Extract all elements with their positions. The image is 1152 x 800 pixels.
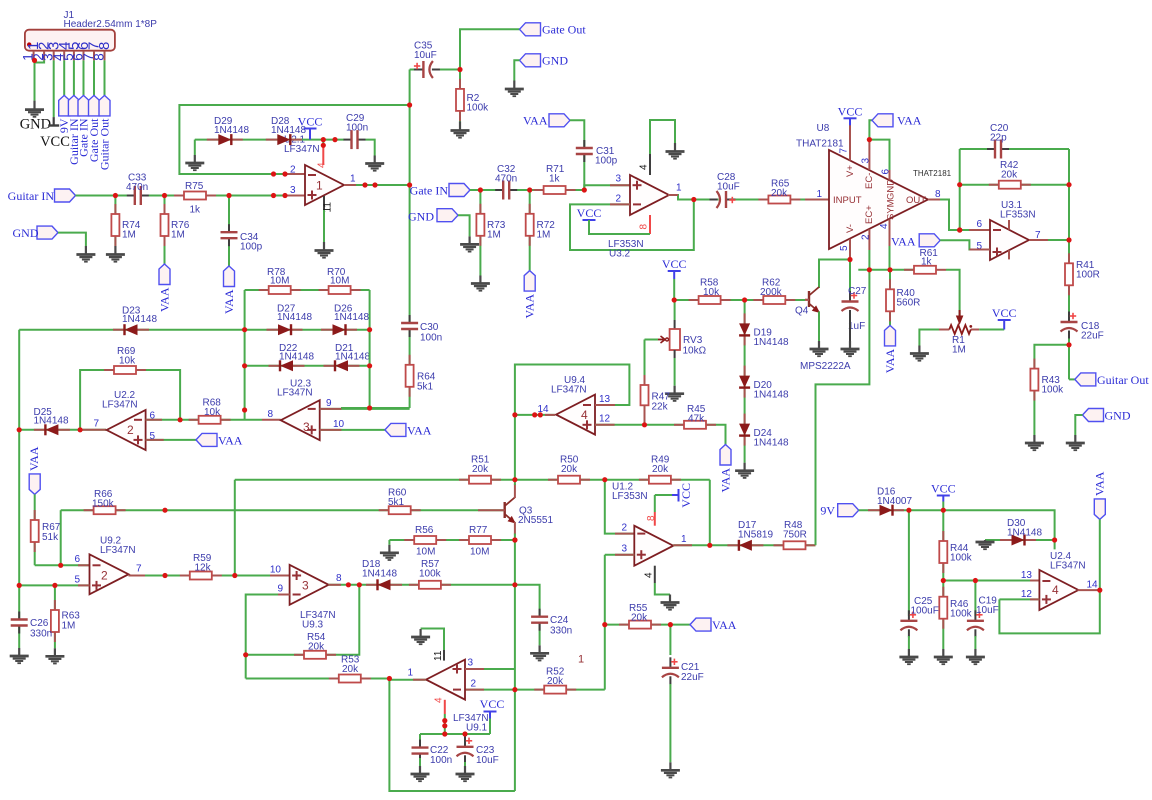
svg-text:1M: 1M (537, 230, 551, 241)
wire diode chain D19 D20 D24 (744, 300, 746, 463)
wire VAA to U2.4 output (1099, 519, 1101, 590)
svg-text:C30: C30 (420, 322, 439, 333)
wire U2.4 output (1078, 589, 1100, 591)
capacitor C22 100n (410, 748, 430, 754)
wire U8 pin3 to pin6 (869, 140, 889, 178)
svg-text:10: 10 (333, 419, 345, 430)
svg-text:VAA: VAA (218, 433, 243, 447)
resistor R65 20k (758, 199, 768, 201)
wire GND flag (top) to ground (514, 60, 519, 80)
ground GND flag (output) (1074, 435, 1076, 443)
resistor R49 20k (639, 479, 649, 481)
svg-text:150k: 150k (92, 499, 115, 510)
ground C21 (669, 762, 671, 770)
net flag Guitar IN (55, 189, 76, 202)
svg-text:12: 12 (599, 414, 611, 425)
svg-text:3: 3 (615, 174, 621, 185)
svg-text:1M: 1M (122, 230, 136, 241)
U8 pin 6 lead (889, 170, 891, 181)
resistor R70 10M (319, 289, 329, 291)
svg-text:5: 5 (74, 575, 80, 586)
svg-text:20k: 20k (631, 613, 648, 624)
diode D28 1N4148 (266, 139, 278, 141)
svg-text:7: 7 (94, 419, 100, 430)
wire C22 to ground (419, 758, 421, 766)
svg-text:V+: V+ (845, 165, 856, 177)
resistor R53 20k (329, 678, 339, 680)
wire R56-R77 row (389, 539, 515, 541)
svg-text:10k: 10k (204, 407, 221, 418)
svg-text:C26: C26 (30, 618, 49, 629)
svg-text:1k: 1k (921, 257, 933, 268)
wire R64 bottom row (pin9) (341, 407, 410, 409)
svg-text:THAT2181: THAT2181 (913, 169, 952, 178)
capacitor C25 100uF (polarized) (899, 621, 919, 631)
wire R66 left vertical (60, 510, 62, 565)
svg-text:5k1: 5k1 (417, 382, 434, 393)
wire GND flag to ground (Gate IN) (458, 215, 470, 236)
wire U9.4 output (515, 414, 555, 416)
svg-text:2: 2 (615, 194, 621, 205)
transistor Q4 MPS2222A (NPN) (808, 291, 810, 307)
diode D22 1N4148 (269, 365, 281, 367)
capacitor C19 10uF (polarized) (965, 621, 985, 631)
svg-text:1N4148: 1N4148 (34, 416, 69, 427)
wire C35 row (410, 69, 460, 71)
wire GND flag to ground (58, 233, 86, 246)
svg-text:100n: 100n (430, 755, 452, 766)
wire U3.1 output (1029, 239, 1069, 241)
net flag VAA (U3.1) (919, 234, 940, 247)
svg-text:Guitar IN: Guitar IN (8, 189, 55, 203)
wire U2.1 pin3 lead row (289, 195, 305, 197)
resistor R76 1M (164, 204, 166, 214)
wire R78-R70 row (245, 289, 370, 291)
svg-text:4: 4 (434, 697, 445, 703)
capacitor C27 1uF (polarized) (840, 302, 860, 312)
resistor R69 10k (104, 369, 114, 371)
net flag GND (Gate IN) (437, 209, 458, 222)
resistor R45 47k (674, 424, 684, 426)
svg-text:LF347N: LF347N (102, 400, 138, 411)
wire R55 to VAA flag (670, 624, 690, 626)
diode D29 1N4148 (207, 139, 219, 141)
svg-text:200k: 200k (760, 287, 783, 298)
svg-text:20k: 20k (342, 664, 359, 675)
svg-text:10kΩ: 10kΩ (683, 346, 707, 357)
wire left column x=19.2 (18, 330, 20, 648)
wire Q4 emitter to ground (818, 312, 820, 342)
op-amp U3.1 LF353N (990, 220, 1029, 260)
svg-text:MPS2222A: MPS2222A (800, 361, 851, 372)
svg-text:1M: 1M (171, 230, 185, 241)
wire J1 pin 7 to flag (93, 60, 95, 95)
svg-text:100n: 100n (346, 123, 368, 134)
svg-text:Gate Out: Gate Out (542, 23, 586, 37)
wire R76 branch (164, 196, 166, 265)
wire U9.4 pin12 row to R45 (595, 425, 726, 445)
U2.1 pin 11 lead (323, 196, 325, 210)
wire R1 left to ground (919, 330, 939, 346)
wire J1 pin 4 to flag (63, 60, 65, 95)
svg-text:THAT2181: THAT2181 (796, 139, 844, 150)
wire R73 branch (479, 190, 481, 276)
wire U8 pin3 to VAA flag (869, 120, 872, 139)
ground RV3 (673, 386, 675, 394)
U9.1 pin 11 lead (443, 650, 445, 661)
transistor Q3 2N5551 (NPN) (504, 502, 506, 518)
wire C20 left vertical (959, 149, 961, 230)
svg-text:LF347N: LF347N (277, 388, 313, 399)
svg-text:4: 4 (639, 164, 650, 170)
wire R71 row (530, 189, 585, 191)
wire J1 pin 8 to flag (104, 60, 106, 95)
svg-text:4: 4 (1052, 583, 1059, 597)
resistor R61 1k (904, 269, 914, 271)
wire R72 branch (529, 190, 531, 271)
svg-text:VCC: VCC (480, 697, 505, 711)
svg-text:20k: 20k (771, 188, 788, 199)
svg-text:VAA: VAA (27, 446, 41, 471)
resistor R58 10k (689, 299, 699, 301)
power VCC J1 pin3 (53, 117, 55, 125)
ground R2 (459, 122, 461, 131)
wire RV3 column from VCC rail (674, 300, 676, 320)
svg-text:1: 1 (681, 534, 687, 545)
svg-text:VAA: VAA (719, 468, 733, 493)
svg-text:1N4148: 1N4148 (1007, 528, 1042, 539)
wire D29 D28 row (195, 139, 344, 141)
diode D24 1N4148 (744, 414, 746, 424)
U3.2 pin 8 lead (red) (649, 215, 651, 234)
wire U2.4 pin12 row (999, 598, 1039, 600)
resistor R62 200k (753, 299, 763, 301)
svg-text:8: 8 (646, 515, 657, 521)
wire U8 pin4 down (889, 246, 891, 270)
svg-text:VAA: VAA (897, 114, 922, 128)
svg-text:470n: 470n (126, 182, 148, 193)
svg-text:1: 1 (407, 668, 413, 679)
wire U9.1 big loop (389, 679, 515, 792)
net flag VAA (R76) (159, 264, 170, 285)
net flag GND (input) (37, 226, 58, 239)
U8 pin 3 lead (868, 140, 870, 170)
diode D18 1N4148 (366, 584, 378, 586)
wire to Guitar Out flag (1069, 378, 1075, 380)
diode D30 1N4148 (1000, 539, 1012, 541)
wire J1 pin 6 to flag (83, 60, 85, 95)
diode D21 1N4148 (324, 365, 336, 367)
svg-text:1N4148: 1N4148 (279, 352, 314, 363)
svg-text:VCC: VCC (992, 306, 1017, 320)
ground C24 (538, 645, 540, 653)
svg-text:U9.1: U9.1 (466, 723, 488, 734)
op-amp U2.2 LF347N (107, 410, 146, 450)
net flag VAA (R55) (690, 618, 711, 631)
resistor R59 12k (180, 575, 190, 577)
net flag Gate Out (J1) (89, 95, 100, 116)
wire R43 branch (1034, 345, 1069, 435)
svg-text:GND: GND (408, 209, 434, 223)
wire VCC to R58 row (673, 279, 675, 300)
U1.2 pin 4 lead (654, 566, 656, 583)
wire 9V rail to D30 (909, 510, 1055, 549)
wire U9.2 pin5 row (19, 584, 89, 586)
ground R73 (479, 276, 481, 284)
wire C19 branch (974, 581, 976, 617)
resistor R68 10k (189, 419, 199, 421)
net flag VAA (U2.4, point down) (1094, 499, 1105, 520)
power VCC (U8 pin7) (844, 117, 857, 119)
wire R51 R50 R49 row (235, 479, 710, 481)
op-amp U9.1 LF347N (426, 660, 465, 700)
svg-text:LF347N: LF347N (1050, 561, 1086, 572)
svg-text:1: 1 (578, 654, 584, 666)
svg-text:9: 9 (326, 398, 332, 409)
svg-text:1M: 1M (62, 621, 76, 632)
wire U9.2 pin6 row (35, 564, 90, 566)
resistor R77 10M (459, 539, 469, 541)
svg-text:100k: 100k (467, 103, 490, 114)
resistor R60 5k1 (379, 509, 389, 511)
ground R1 (918, 346, 920, 354)
ground U9.1 pin11 (420, 629, 422, 637)
ground GND flag (input) (85, 246, 87, 255)
svg-text:VAA: VAA (523, 294, 537, 319)
wire U3.2 pin4 to ground (650, 120, 675, 154)
svg-text:7: 7 (839, 148, 850, 154)
ground R56 (388, 545, 390, 553)
power VCC (R58) (668, 270, 681, 272)
svg-text:8: 8 (268, 409, 274, 420)
ground R43 (1033, 435, 1035, 443)
svg-text:2: 2 (127, 423, 134, 437)
wire U2.4 pin13 row (943, 580, 1039, 582)
svg-text:2: 2 (101, 569, 108, 583)
wire U2.2 pin5 to VAA (146, 439, 196, 441)
svg-text:U8: U8 (817, 123, 830, 134)
resistor R55 20k (619, 624, 629, 626)
J1 pin-1 marker dot (27, 42, 31, 46)
resistor R64 5k1 (409, 355, 411, 365)
ground D29 (194, 155, 196, 163)
connector J1 Header2.54mm 1*8P (25, 30, 115, 51)
capacitor C21 22uF (polarized) (660, 668, 680, 678)
Q3 collector lead (514, 484, 516, 498)
wire C21 branch (669, 625, 671, 655)
resistor R73 1M (479, 204, 481, 214)
wire C27 to ground (849, 318, 851, 341)
svg-text:10uF: 10uF (414, 50, 437, 61)
svg-text:10uF: 10uF (717, 182, 740, 193)
svg-text:Guitar Out: Guitar Out (1097, 373, 1149, 387)
wire R2 branch (459, 70, 461, 122)
ground U1.2 pin4 (669, 595, 671, 603)
resistor R2 100k (459, 79, 461, 89)
wire C20/R42 right vertical (1068, 149, 1070, 240)
wire 9V to D16 (859, 509, 909, 511)
svg-text:U3.2: U3.2 (609, 249, 631, 260)
wire C25 to ground (908, 636, 910, 649)
U8 pin 4 lead (889, 219, 891, 246)
wire U2.1 feedback top (179, 105, 409, 174)
wire U1.2 pin3 branch (605, 554, 635, 556)
svg-text:20k: 20k (547, 676, 564, 687)
wire VCC stem to rail (942, 502, 944, 511)
svg-text:VAA: VAA (158, 287, 172, 312)
svg-text:1N4148: 1N4148 (214, 125, 249, 136)
svg-text:8: 8 (639, 224, 650, 230)
wire U2.3 pin10 to VAA (320, 429, 385, 431)
diode D17 1N5819 (727, 544, 739, 546)
ground D30 (984, 540, 986, 542)
wire C29 to ground (366, 140, 375, 156)
wire x=604.8 vertical (pin3 to R55 to R52) (604, 555, 606, 690)
U9.1 pin 4 lead (red) (444, 700, 446, 714)
potentiometer R1 1M (zigzag) (939, 329, 949, 331)
svg-text:1k: 1k (190, 205, 202, 216)
capacitor C26 330n (9, 620, 29, 626)
svg-text:LF347N: LF347N (284, 144, 320, 155)
svg-text:2: 2 (860, 234, 871, 240)
wire to Gate Out flag (460, 29, 520, 69)
svg-text:47k: 47k (688, 414, 705, 425)
svg-text:VCC: VCC (838, 104, 863, 118)
svg-text:LF353N: LF353N (1000, 210, 1036, 221)
wire main vertical (U2.1 out to R64) (409, 70, 411, 409)
svg-text:12: 12 (1021, 589, 1033, 600)
svg-text:GND: GND (542, 54, 568, 68)
ground C22 (419, 766, 421, 774)
wire C34 branch (228, 196, 230, 267)
wire main mid vertical x=514.9 (below Q3) (514, 534, 516, 792)
ground R46 (942, 649, 944, 657)
svg-text:VCC: VCC (298, 115, 323, 129)
wire R49 feedback down (709, 480, 711, 546)
svg-text:100R: 100R (1076, 270, 1100, 281)
svg-text:750R: 750R (783, 530, 807, 541)
svg-text:3: 3 (468, 658, 474, 669)
svg-text:1: 1 (676, 183, 682, 194)
svg-text:20k: 20k (1001, 170, 1018, 181)
svg-text:5: 5 (839, 245, 850, 251)
svg-text:6: 6 (74, 554, 80, 565)
op-amp U2.1 LF347N (305, 165, 344, 205)
svg-text:20k: 20k (652, 464, 669, 475)
wire C25 branch (908, 510, 910, 616)
resistor R52 20k (534, 689, 544, 691)
svg-text:OUT: OUT (906, 195, 926, 206)
diode D23 1N4148 (113, 329, 125, 331)
wire U9.3 pin9 loop (246, 595, 290, 679)
wire right vertical x=369.6 (369, 290, 371, 408)
svg-text:560R: 560R (897, 298, 921, 309)
wire C28-R65 row (694, 199, 829, 201)
U8 pin 2 lead (868, 229, 870, 250)
net flag 9V (J1) (59, 95, 70, 116)
svg-text:10k: 10k (119, 356, 136, 367)
net flag VAA (U2.3) (385, 423, 406, 436)
svg-text:1: 1 (316, 179, 323, 193)
diode D26 1N4148 (321, 329, 333, 331)
wire R46 branch (942, 581, 944, 650)
ground C27 (849, 341, 851, 349)
wire C19 to ground (974, 636, 976, 649)
capacitor C32 470n (503, 180, 509, 200)
resistor R72 1M (529, 204, 531, 214)
wire Guitar IN row (76, 195, 290, 197)
svg-text:22uF: 22uF (1081, 331, 1104, 342)
wire U2.1 pin4 to D28/C29 net (322, 140, 324, 146)
svg-text:INPUT: INPUT (833, 195, 862, 206)
svg-text:U9.3: U9.3 (302, 620, 324, 631)
wire D22/D21 row (245, 365, 370, 367)
svg-text:VCC: VCC (679, 483, 693, 508)
wire Q4 collector to C27/U8 pin5 node (819, 260, 850, 289)
resistor R78 10M (259, 289, 269, 291)
wire R53 row (246, 678, 390, 680)
resistor R46 100k (942, 587, 944, 597)
U3.1 power stubs (1008, 220, 1010, 230)
svg-text:VAA: VAA (523, 114, 548, 128)
diode D16 1N4007 (868, 509, 880, 511)
ground C19 (974, 649, 976, 657)
R1 wiper arrow (956, 316, 964, 326)
ground J1 pins 1-2 (33, 101, 35, 110)
wire R48 to Q4 rail (816, 270, 870, 546)
wire C22/C23 row (420, 733, 490, 735)
wire VCC to U3.2 pin8 (589, 220, 650, 234)
svg-text:100k: 100k (950, 553, 973, 564)
net flag VAA (R45) (720, 445, 731, 466)
power VCC (9V rail) (937, 495, 950, 497)
resistor R67 51k (34, 510, 36, 520)
net flag VAA (U8) (872, 114, 893, 127)
op-amp U3.2 LF353N (630, 175, 669, 215)
svg-text:3: 3 (303, 420, 310, 434)
wire U1.2 output to D17 (673, 544, 815, 546)
power VCC (U3.2) (583, 219, 596, 221)
wire U9.3 output row (pin8) (328, 584, 515, 586)
wire C23 to ground (464, 762, 466, 766)
svg-text:470n: 470n (495, 174, 517, 185)
svg-text:1: 1 (350, 174, 356, 185)
svg-text:10M: 10M (470, 547, 489, 558)
resistor R57 100k (409, 584, 419, 586)
svg-text:10uF: 10uF (976, 605, 999, 616)
wire U2.3 pin9 row (320, 408, 410, 410)
svg-text:13: 13 (599, 394, 611, 405)
svg-text:1N5819: 1N5819 (738, 530, 773, 541)
op-amp U1.2 LF353N (634, 526, 673, 566)
svg-text:12k: 12k (195, 563, 212, 574)
svg-text:10M: 10M (270, 276, 289, 287)
svg-text:Q4: Q4 (795, 306, 809, 317)
svg-text:100n: 100n (420, 333, 442, 344)
net flag Gate Out (520, 23, 541, 36)
svg-text:3: 3 (621, 544, 627, 555)
svg-text:10k: 10k (703, 287, 720, 298)
svg-text:LF347N: LF347N (551, 385, 587, 396)
diode D27 1N4148 (267, 329, 279, 331)
resistor R56 10M (404, 539, 414, 541)
svg-text:1N4148: 1N4148 (277, 312, 312, 323)
ground U3.2 pin4 (674, 143, 676, 152)
wire U9.1 output (389, 679, 425, 681)
resistor R50 20k (548, 479, 558, 481)
svg-text:22p: 22p (990, 133, 1007, 144)
svg-text:VCC: VCC (577, 206, 602, 220)
